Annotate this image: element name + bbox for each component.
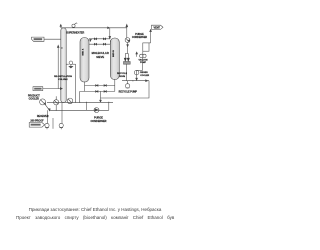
bed A bottom outlet [84, 82, 86, 92]
svg-text:MOLECULAR: MOLECULAR [92, 51, 109, 55]
svg-text:VENT: VENT [154, 26, 161, 29]
product pump P4 [45, 123, 49, 129]
label PURGE CONDENSER [132, 33, 148, 39]
svg-text:BED B: BED B [113, 50, 115, 57]
wire valve line [66, 63, 69, 65]
label RE-DISTILLATION COLUMN [54, 75, 72, 81]
node J1 [79, 102, 80, 103]
label RECYCLE DRUM [117, 73, 128, 78]
product flag [29, 123, 44, 128]
label PRODUCT COOLER [28, 95, 40, 101]
svg-text:COOLER: COOLER [29, 98, 40, 101]
svg-text:PUMP: PUMP [140, 62, 147, 64]
main product line [47, 101, 113, 103]
svg-text:RECYCLE: RECYCLE [117, 73, 128, 75]
svg-text:VACUUM: VACUUM [139, 58, 148, 61]
valve top manifold 1b [103, 38, 105, 40]
flag 190 PROOF (top-left) [32, 37, 45, 41]
node column wall dot [61, 47, 62, 48]
product cooler E1 [40, 99, 46, 105]
label VACUUM PUMP [139, 58, 148, 64]
vacuum pump P1 (twin circles) [140, 54, 146, 57]
top manifold line 1 [89, 38, 110, 40]
svg-text:SUPERHEATER: SUPERHEATER [66, 31, 84, 34]
wire riser to product line [75, 64, 77, 102]
svg-text:RECYCLE PUMP: RECYCLE PUMP [119, 91, 138, 93]
molecular sieve bed B [110, 38, 119, 80]
svg-text:SIEVE: SIEVE [96, 55, 104, 59]
feed pump P3 [94, 108, 99, 113]
caption line 1 [13, 207, 177, 212]
relief valve U1 on top line [72, 23, 77, 28]
heat exchanger E3 [67, 98, 73, 104]
wire feed to column [43, 88, 61, 90]
feed pump bypass loop [85, 102, 87, 110]
vent flag [152, 25, 164, 29]
svg-text:CONDENSER: CONDENSER [132, 36, 148, 39]
bed B top riser [109, 41, 111, 45]
svg-text:PURGE: PURGE [94, 116, 103, 119]
wire cooler diagonal drop [45, 104, 49, 110]
bottom manifold line 2 [80, 90, 115, 92]
manifold stub to junction [100, 91, 102, 98]
wire condenser down [127, 42, 129, 53]
svg-text:COLUMN: COLUMN [58, 79, 68, 81]
wire cooler top feed [137, 69, 143, 71]
riser column top to line [60, 26, 62, 28]
product pump P5 [59, 123, 63, 129]
wire feed riser with up arrow [57, 47, 59, 89]
purge condenser C1 [125, 38, 130, 43]
re-distillation column [61, 28, 66, 103]
label REGEN COOLER [140, 72, 149, 77]
regen cooler instrument U2 [134, 70, 139, 75]
svg-text:CONDENSER: CONDENSER [91, 120, 107, 123]
regen line [122, 80, 149, 82]
regen drum (shaded) [124, 62, 131, 65]
svg-text:200 PROOF: 200 PROOF [30, 120, 44, 123]
valve bottom manifold 2a [96, 91, 98, 93]
svg-text:BED A: BED A [82, 48, 85, 55]
molecular sieve bed A [80, 38, 89, 83]
wire pump2 suction [61, 103, 63, 124]
wire box to vacuum pump [142, 51, 144, 54]
valve top manifold 2a [94, 43, 96, 45]
purge vapor arrow [136, 54, 138, 57]
node J5 [108, 102, 109, 103]
arrows into drum [124, 58, 126, 61]
bed A top riser [90, 39, 92, 41]
caption line 2 [16, 215, 177, 220]
bottom manifold line 1 [85, 84, 115, 86]
purge condenser riser with up arrow [126, 27, 128, 38]
top manifold line 2 [89, 43, 110, 45]
wire vacuum pump suction [142, 58, 144, 71]
wire flag to column [44, 38, 61, 40]
wire drum to pump [126, 64, 128, 81]
return loop wire [101, 81, 150, 102]
feed flag RECYCLE [33, 87, 43, 91]
wire mid drop [52, 118, 54, 129]
product riser from manifold [79, 91, 81, 102]
control valve V1 [69, 61, 73, 68]
heat exchanger E2 [54, 96, 59, 110]
wire pump discharge [127, 81, 129, 84]
valve top manifold 1a [94, 38, 105, 45]
lower product line [50, 109, 109, 111]
recycle pump P2 [125, 84, 129, 88]
svg-text:DRUM: DRUM [119, 76, 126, 78]
riser top line to manifold with arrow [109, 28, 111, 39]
node J3 [75, 102, 76, 103]
svg-text:REGEN: REGEN [140, 72, 148, 74]
purge condenser box [143, 43, 149, 51]
bed B bottom outlet [114, 79, 116, 91]
vent riser wire [150, 31, 152, 43]
superheater top line [61, 27, 108, 29]
valve bottom manifold 1b [104, 85, 106, 87]
wire cooler to regen line arrow [136, 75, 138, 80]
valve bottom manifold 1a [96, 85, 107, 93]
svg-text:RECEIVER: RECEIVER [37, 116, 49, 118]
label FEED CONDENSER [91, 116, 107, 123]
wire drum feed split [125, 53, 128, 55]
node J6 [56, 110, 57, 111]
svg-text:RE-DISTILLATION: RE-DISTILLATION [54, 75, 72, 78]
node J4 [86, 102, 87, 103]
valve top manifold 2b [103, 43, 105, 45]
wire pump1 suction [47, 110, 49, 123]
valve bottom manifold 2b [104, 91, 106, 93]
node J2 [132, 80, 133, 81]
label MOLECULAR SIEVE [92, 51, 109, 59]
svg-text:COOLER: COOLER [140, 75, 149, 77]
